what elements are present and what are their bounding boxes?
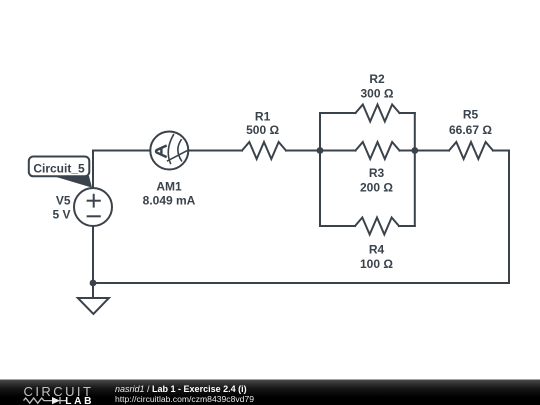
wire left bus	[319, 113, 321, 226]
svg-text:R4: R4	[369, 243, 385, 257]
footer bar	[0, 380, 540, 405]
resistor R5	[449, 142, 493, 159]
resistor R4	[355, 218, 399, 235]
ammeter AM1	[150, 132, 188, 170]
junction node R1/parallel	[317, 147, 324, 154]
flag Circuit_5 box	[29, 157, 90, 177]
wire top branch right lead	[400, 112, 415, 114]
svg-text:500 Ω: 500 Ω	[246, 123, 279, 137]
svg-text:V5: V5	[56, 194, 71, 208]
svg-text:100 Ω: 100 Ω	[360, 257, 393, 271]
wire top branch left lead	[320, 112, 356, 114]
resistor R3	[356, 142, 400, 159]
junction node ground	[90, 280, 97, 287]
wire V5 top to main rail	[92, 151, 94, 189]
ground	[78, 298, 109, 314]
junction node parallel/R5	[411, 147, 418, 154]
wire ammeter to R1	[188, 150, 242, 152]
resistor R1	[242, 142, 286, 159]
wire bottom return	[93, 282, 509, 284]
svg-text:R1: R1	[255, 110, 271, 124]
svg-text:8.049 mA: 8.049 mA	[143, 194, 196, 208]
svg-text:R5: R5	[463, 108, 479, 122]
wire bottom branch right lead	[399, 225, 415, 227]
wire bottom branch left lead	[320, 225, 355, 227]
label ammeter A glyph	[156, 146, 166, 157]
svg-text:R3: R3	[369, 166, 385, 180]
svg-text:http://circuitlab.com/czm8439c: http://circuitlab.com/czm8439c8vd79	[115, 394, 254, 404]
svg-text:5 V: 5 V	[52, 208, 70, 222]
svg-text:Circuit_5: Circuit_5	[33, 162, 85, 176]
svg-text:nasrid1 / Lab 1 - Exercise 2.4: nasrid1 / Lab 1 - Exercise 2.4 (i)	[115, 384, 247, 394]
wire ground stem	[92, 283, 94, 298]
voltage source V5	[74, 188, 112, 226]
wire right side down	[508, 151, 510, 284]
wire V5 bottom	[92, 226, 94, 283]
wire top rail left	[93, 150, 150, 152]
svg-text:AM1: AM1	[156, 180, 182, 194]
svg-text:300 Ω: 300 Ω	[361, 86, 394, 100]
wire middle branch left lead	[320, 150, 356, 152]
svg-text:LAB: LAB	[65, 396, 94, 405]
wire R5 to right corner	[493, 150, 509, 152]
wire R1 to node	[286, 150, 320, 152]
svg-text:R2: R2	[369, 72, 385, 86]
wire middle branch right lead	[400, 150, 415, 152]
svg-text:200 Ω: 200 Ω	[360, 181, 393, 195]
wire right bus	[414, 113, 416, 226]
svg-text:66.67 Ω: 66.67 Ω	[449, 123, 492, 137]
logo resistor-diode glyph	[24, 397, 67, 404]
wire node to R5	[415, 150, 449, 152]
resistor R2	[356, 105, 400, 122]
